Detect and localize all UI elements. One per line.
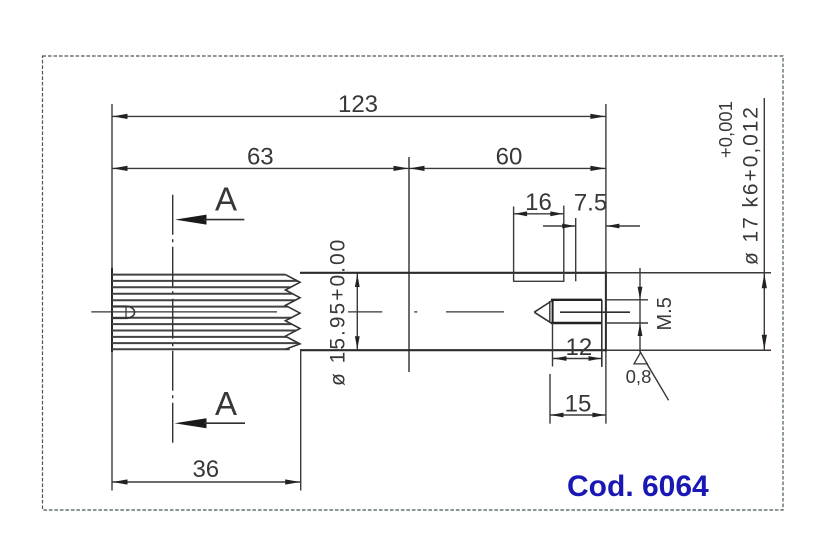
svg-text:15: 15 [565,391,592,418]
svg-text:60: 60 [496,144,523,171]
svg-text:Cod. 6064: Cod. 6064 [567,470,709,503]
svg-text:63: 63 [247,144,274,171]
svg-text:A: A [215,181,237,218]
svg-text:12: 12 [566,334,593,361]
svg-text:ø 17 k6+0,012: ø 17 k6+0,012 [740,107,763,265]
svg-text:36: 36 [192,456,219,483]
svg-text:+0,001: +0,001 [715,101,736,158]
svg-text:A: A [215,385,237,422]
svg-text:ø 15.95+0.00: ø 15.95+0.00 [327,238,350,386]
svg-text:M.5: M.5 [654,297,676,330]
svg-text:16: 16 [525,189,552,216]
svg-text:7.5: 7.5 [574,190,607,217]
svg-text:123: 123 [338,91,378,118]
svg-text:0,8: 0,8 [626,366,652,387]
